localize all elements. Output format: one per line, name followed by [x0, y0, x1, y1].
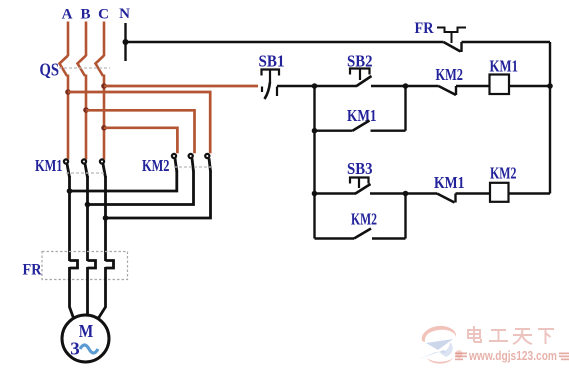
svg-text:KM2: KM2	[142, 156, 170, 175]
coil KM2 label	[490, 164, 517, 183]
wire phase C mid	[103, 75, 106, 160]
wire phase C upper	[103, 22, 106, 57]
wire motor lead left	[70, 267, 74, 318]
motor tilde	[80, 345, 98, 353]
motor M circle	[62, 315, 109, 362]
svg-text:KM2: KM2	[490, 164, 517, 183]
coil KM1 label	[490, 57, 519, 76]
button SB1 NC	[262, 70, 280, 100]
contactor KM2 main pole 1	[172, 154, 177, 172]
node B1	[403, 83, 409, 89]
contactor KM2 holding label	[351, 210, 377, 229]
contactor KM2 NC label	[436, 65, 464, 84]
wire top line FR to right rail	[462, 41, 551, 43]
wire motor lead right	[99, 267, 106, 318]
contactor KM2 NC contact	[406, 86, 490, 95]
svg-text:3: 3	[70, 339, 80, 359]
wire KM2 pole1 to phase A	[70, 171, 177, 192]
watermark url	[455, 349, 569, 363]
relay FR control label	[415, 20, 434, 37]
wire KM2 pole3 to phase C	[106, 171, 211, 219]
button SB2 NO	[350, 69, 372, 87]
svg-text:N: N	[119, 6, 130, 22]
contactor KM1 NC label	[434, 173, 465, 192]
button SB2 label	[347, 52, 373, 71]
relay FR dashed box	[42, 252, 128, 280]
relay FR heater 3	[106, 261, 114, 269]
wire A tap to KM2 pole 3	[68, 92, 210, 153]
wire below KM1 pole 2	[86, 176, 89, 261]
wire phase A upper	[67, 22, 70, 57]
switch QS pole B	[78, 56, 87, 77]
button SB1 label	[259, 52, 285, 71]
node merge C	[103, 215, 109, 221]
contactor KM1 main pole 2	[82, 159, 88, 177]
contactor KM2 linkage dashed	[174, 166, 211, 168]
node neutral junction	[123, 39, 129, 45]
phase label A	[62, 7, 73, 23]
wire below KM1 pole 3	[104, 176, 107, 261]
wire phase A mid	[67, 75, 70, 160]
node right rail rung1	[547, 83, 553, 89]
contactor KM2 holding contact	[315, 229, 406, 239]
svg-text:www.dgjs123.com: www.dgjs123.com	[468, 349, 557, 363]
svg-text:KM2: KM2	[436, 65, 464, 84]
node C1	[403, 191, 409, 197]
svg-text:A: A	[62, 7, 73, 23]
node merge B	[85, 202, 91, 208]
wire top line N to FR contact	[126, 41, 444, 43]
watermark text dian	[468, 326, 481, 342]
node phase A tap	[65, 89, 71, 95]
svg-text:B: B	[80, 7, 90, 23]
svg-text:SB3: SB3	[347, 159, 373, 178]
wire B tap to KM2 pole 2	[86, 110, 195, 153]
switch QS label	[40, 60, 60, 80]
wire coil KM2 to right rail	[509, 192, 551, 194]
wire phase B upper	[85, 22, 88, 57]
button SB3 label	[347, 159, 373, 178]
wire right rail	[549, 42, 551, 194]
relay FR heater 2	[88, 261, 96, 269]
node phase B tap	[83, 107, 89, 113]
node merge A	[67, 188, 73, 194]
phase label C	[98, 7, 109, 23]
coil KM2 box	[490, 183, 509, 202]
relay FR NC contact	[437, 28, 466, 53]
node phase C tap	[101, 125, 107, 131]
contactor KM2 main pole 2	[189, 154, 194, 172]
svg-text:KM1: KM1	[490, 57, 519, 76]
watermark logo	[419, 326, 463, 364]
wire coil KM1 to right rail	[509, 85, 550, 87]
wire node A1 to SB2	[315, 85, 358, 87]
switch QS pole C	[96, 56, 105, 77]
wire holding to node B1	[404, 86, 406, 131]
contactor KM1 NC contact	[406, 194, 491, 203]
wire holding KM2 to node C1	[404, 194, 406, 239]
phase label B	[80, 7, 90, 23]
node phase C to control feed	[101, 83, 107, 89]
wire below KM1 pole 1	[68, 176, 71, 261]
wire SB3 to node C1	[370, 192, 406, 194]
svg-text:FR: FR	[23, 262, 42, 279]
button SB3 NO	[350, 178, 371, 194]
node A1	[312, 83, 318, 89]
contactor KM1 main pole 1	[64, 159, 70, 177]
wire neutral stub	[124, 23, 126, 61]
svg-text:KM1: KM1	[434, 173, 465, 192]
contactor KM1 holding label	[347, 106, 377, 125]
motor label 3	[70, 339, 80, 359]
contactor KM2 label main	[142, 156, 170, 175]
wire left rail down	[313, 86, 315, 239]
svg-text:KM2: KM2	[351, 210, 377, 229]
wire KM2 pole2 to phase B	[88, 171, 194, 205]
relay FR heater 1	[70, 261, 78, 269]
coil KM1 box	[490, 75, 510, 95]
motor label M	[79, 321, 94, 341]
wire C tap to KM2 pole 1	[104, 128, 177, 153]
svg-text:C: C	[98, 7, 109, 23]
contactor KM1 main pole 3	[100, 159, 106, 177]
wire SB2 to node B1	[371, 85, 406, 87]
neutral label N	[119, 6, 130, 22]
svg-text:KM1: KM1	[35, 156, 63, 175]
node left rail SB3	[312, 191, 318, 197]
wire SB1 to node A1	[277, 85, 315, 87]
contactor KM2 main pole 3	[205, 154, 210, 172]
wire motor lead mid	[86, 267, 89, 316]
switch QS pole A	[60, 56, 69, 77]
wire control feed C to SB1	[104, 85, 258, 88]
contactor KM1 linkage dashed	[66, 172, 105, 174]
watermark text xia	[538, 329, 554, 344]
wire left rail to SB3	[315, 192, 357, 194]
switch QS linkage dashed	[59, 67, 110, 69]
svg-text:KM1: KM1	[347, 106, 377, 125]
svg-text:FR: FR	[415, 20, 434, 37]
svg-text:QS: QS	[40, 60, 60, 80]
watermark text gong	[489, 330, 508, 341]
contactor KM1 holding contact	[315, 121, 406, 131]
wire phase B mid	[85, 75, 88, 160]
watermark text tian	[513, 329, 532, 344]
relay FR label main	[23, 262, 42, 279]
node left rail holding	[312, 128, 318, 134]
svg-text:SB1: SB1	[259, 52, 285, 71]
contactor KM1 label main	[35, 156, 63, 175]
svg-text:M: M	[79, 321, 94, 341]
